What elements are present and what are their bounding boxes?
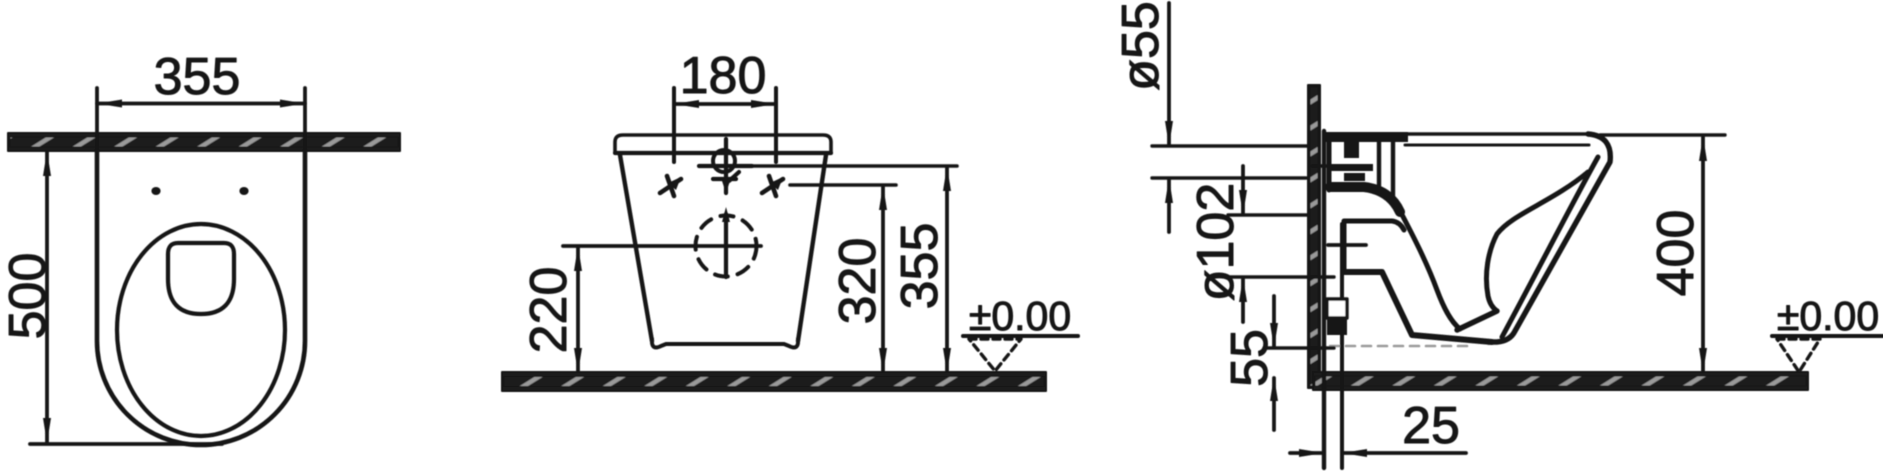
dimension line 500 xyxy=(45,152,49,443)
flush channel right wall outer xyxy=(1377,139,1381,191)
extension line ø102 top xyxy=(1228,213,1308,216)
flush box bottom bar (side) xyxy=(1330,187,1400,212)
extension line ø55 bottom xyxy=(1152,176,1306,179)
svg-text:±0.00: ±0.00 xyxy=(1777,293,1879,339)
seat hinge hole right xyxy=(239,187,248,195)
wall tick at flush pipe xyxy=(1312,164,1336,167)
extension line 400 xyxy=(1600,133,1725,136)
inner rim slant (side) xyxy=(1502,157,1598,337)
drain centerline tick (side) xyxy=(1328,243,1366,247)
svg-text:25: 25 xyxy=(1402,397,1460,455)
wall section band (side) xyxy=(1308,85,1320,388)
toilet back face / 25 extension line xyxy=(1322,131,1326,468)
flush box inner bar xyxy=(1331,164,1373,171)
dimension ø102 xyxy=(1241,166,1245,213)
dimension line 355 xyxy=(97,102,305,106)
trap back S-curve (side) xyxy=(1486,172,1588,311)
extension line to 320 dim xyxy=(790,183,896,187)
drain centerline horizontal (220 extension) xyxy=(563,244,761,248)
extension line to 355 dim xyxy=(752,164,957,168)
drain stub top (side) xyxy=(1344,221,1404,230)
floor section band (front view) xyxy=(502,372,1046,391)
extension line left (355) xyxy=(95,88,99,168)
extension line ø102 bottom xyxy=(1228,275,1334,278)
svg-text:220: 220 xyxy=(520,267,578,354)
floor section band (side) xyxy=(1313,372,1808,390)
top right corner and outer right slant (side) xyxy=(1488,134,1610,342)
dimension line 355 vertical xyxy=(945,168,949,371)
fixing nut outline (side) xyxy=(1327,299,1347,318)
drain stub front vertical (side) xyxy=(1342,222,1347,272)
svg-text:55: 55 xyxy=(1221,329,1279,387)
flush box left wall (side) xyxy=(1327,136,1332,190)
flush hole centerline horizontal xyxy=(699,164,752,168)
bowl back inner curve (side) xyxy=(1398,207,1460,329)
bolt extension line right xyxy=(774,88,778,162)
svg-text:±0.00: ±0.00 xyxy=(969,293,1071,339)
svg-text:180: 180 xyxy=(680,47,767,105)
bolt hole mark right xyxy=(762,176,783,196)
top rim upper line (side) xyxy=(1405,132,1594,135)
dimension ø55 xyxy=(1167,3,1171,144)
dimension 25 left piece xyxy=(1290,451,1322,455)
sump bottom slant (side) xyxy=(1457,311,1497,330)
svg-text:355: 355 xyxy=(891,223,949,310)
extension line 55 xyxy=(1264,346,1334,349)
flush pipe hole circle (front) xyxy=(713,150,735,172)
flush box lower tab xyxy=(1344,173,1365,181)
datum level symbol (side) xyxy=(1772,334,1883,338)
center mark below flush hole xyxy=(713,172,739,193)
dimension line 180 xyxy=(674,102,776,106)
hidden line under bowl xyxy=(1330,345,1468,348)
svg-text:ø102: ø102 xyxy=(1187,183,1245,302)
dimension line 220 xyxy=(576,248,580,371)
flush hole centerline vertical xyxy=(724,139,728,193)
dimension 55 xyxy=(1272,296,1276,346)
svg-text:320: 320 xyxy=(829,238,887,325)
wall section band (plan) xyxy=(8,133,400,151)
bolt extension line left xyxy=(672,88,676,162)
svg-text:500: 500 xyxy=(0,253,57,340)
drain vertical centerline with arrow xyxy=(724,214,728,277)
tank rim top (front) xyxy=(615,135,831,153)
bowl rim ellipse (plan) xyxy=(117,224,285,436)
top rim lower line (side) xyxy=(1405,144,1589,147)
rim bottom edge (front) xyxy=(615,151,831,155)
drain dashed circle (front) xyxy=(696,216,757,277)
flush opening (plan) xyxy=(168,243,234,314)
fixing nut solid (side) xyxy=(1327,318,1347,335)
datum level symbol (front) xyxy=(963,334,1078,338)
seat hinge hole left xyxy=(151,187,160,195)
toilet body outline (plan) xyxy=(97,150,305,445)
extension line right (355) xyxy=(303,88,307,168)
bolt hole mark left xyxy=(660,176,681,196)
extension line ø55 top xyxy=(1152,144,1308,147)
extension line bottom (500) xyxy=(30,442,222,446)
svg-text:ø55: ø55 xyxy=(1112,1,1170,91)
svg-text:355: 355 xyxy=(154,48,241,106)
dimension line 320 xyxy=(881,187,885,371)
dimension 25 right piece xyxy=(1344,451,1466,455)
dimension line 400 xyxy=(1701,137,1705,371)
svg-text:400: 400 xyxy=(1647,210,1705,297)
body left slant (front) xyxy=(620,155,652,341)
top rim section bar (side) xyxy=(1324,132,1408,142)
flush channel right wall inner xyxy=(1391,139,1395,200)
flush box inner square xyxy=(1344,142,1359,158)
bottom edge (side) xyxy=(1344,272,1492,342)
drain front / 25 extension line xyxy=(1340,224,1344,468)
body bottom with feet (front) xyxy=(652,339,798,347)
body right slant (front) xyxy=(798,155,826,341)
